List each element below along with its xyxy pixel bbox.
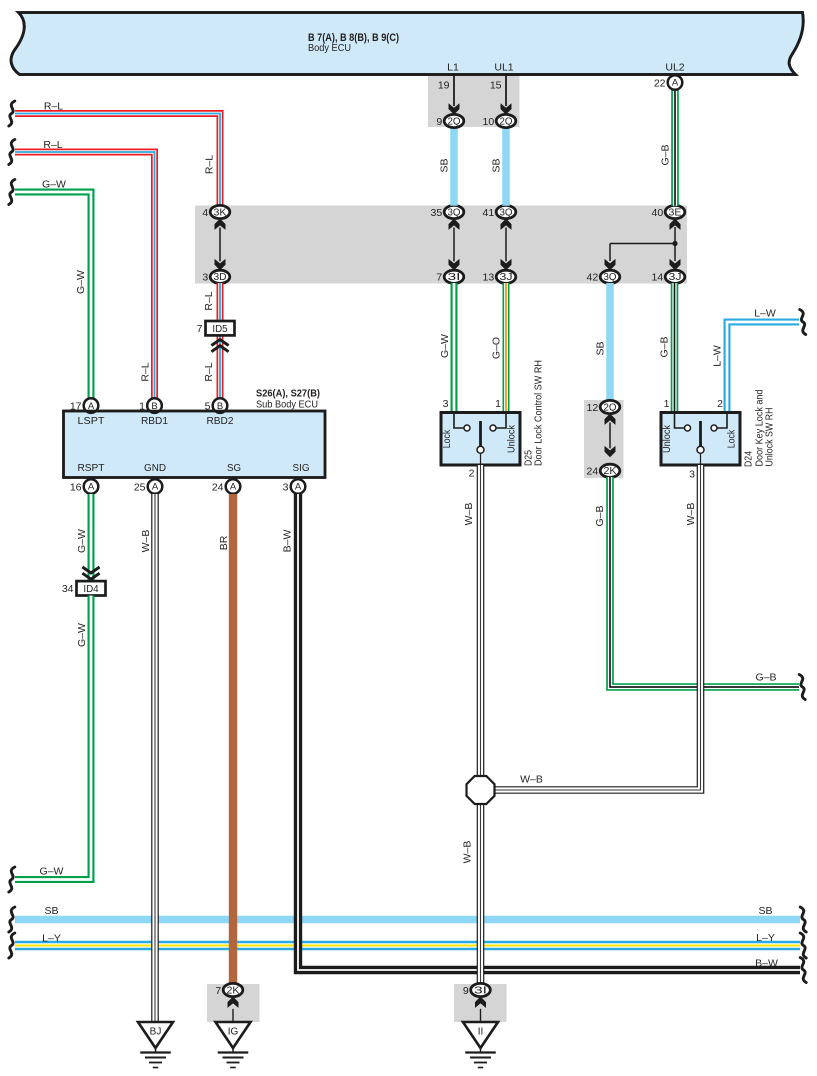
svg-text:R–L: R–L — [203, 362, 215, 381]
svg-text:40: 40 — [652, 207, 664, 219]
svg-text:W–B: W–B — [685, 503, 697, 526]
svg-text:G–B: G–B — [755, 672, 776, 684]
svg-text:SB: SB — [44, 905, 58, 917]
svg-text:ID5: ID5 — [212, 324, 228, 335]
connector 13 3J — [496, 270, 516, 283]
svg-text:L–W: L–W — [754, 308, 776, 320]
wire R-L from body harness to junction 3K — [15, 114, 220, 206]
svg-text:2K: 2K — [227, 985, 240, 996]
svg-text:3: 3 — [283, 481, 289, 493]
svg-text:2K: 2K — [604, 466, 617, 477]
junction block shade top (2Q connector group) — [428, 76, 520, 128]
wire G-B from Body ECU pin 22 A to 40 3E — [671, 90, 679, 206]
svg-text:G–O: G–O — [490, 337, 502, 359]
svg-text:2: 2 — [469, 468, 475, 480]
svg-text:3: 3 — [202, 272, 208, 284]
svg-text:3Q: 3Q — [448, 207, 461, 218]
svg-text:Lock: Lock — [725, 429, 737, 448]
svg-text:7: 7 — [197, 323, 203, 335]
svg-text:Unlock SW RH: Unlock SW RH — [763, 408, 775, 467]
svg-text:G–W: G–W — [76, 529, 88, 553]
pin 22 A of Body ECU — [668, 75, 683, 90]
switch lever D24 — [699, 421, 702, 446]
svg-text:A: A — [230, 482, 237, 493]
svg-text:16: 16 — [70, 481, 82, 493]
svg-text:G–W: G–W — [76, 623, 88, 647]
junction connector arrow 3K-3D — [219, 228, 221, 262]
component Sub Body ECU S26(A) S27(B) — [64, 411, 326, 478]
svg-text:G–W: G–W — [40, 866, 64, 878]
svg-text:25: 25 — [134, 481, 146, 493]
svg-text:BR: BR — [218, 535, 230, 550]
svg-text:SB: SB — [490, 158, 502, 172]
switch contact unlock D24 — [685, 425, 691, 431]
svg-text:35: 35 — [431, 207, 443, 219]
wire SB bus across bottom — [15, 916, 800, 924]
connector 9 2Q — [444, 114, 464, 127]
svg-text:R–L: R–L — [203, 291, 215, 310]
svg-text:41: 41 — [483, 207, 495, 219]
junction connector arrow 3Q-3J — [505, 228, 507, 262]
wire SB from 9 2Q to 35 3Q — [450, 128, 458, 206]
svg-text:L–Y: L–Y — [756, 932, 775, 944]
switch contact lock D24 — [711, 425, 717, 431]
connector 9 3I bottom — [475, 997, 486, 1008]
connector 35 3Q — [444, 205, 464, 218]
connector 7 3I — [444, 270, 464, 283]
svg-text:B–W: B–W — [281, 530, 293, 553]
wire G-B from 14 3J to D24 pin 1 — [671, 283, 679, 413]
wire L-W from cowl harness to D24 pin 2 — [727, 322, 799, 413]
svg-text:G–B: G–B — [659, 144, 671, 165]
svg-text:2Q: 2Q — [604, 402, 617, 413]
svg-text:LSPT: LSPT — [78, 415, 106, 427]
svg-text:RSPT: RSPT — [78, 462, 106, 474]
svg-text:SB: SB — [594, 341, 606, 355]
svg-text:G–W: G–W — [42, 179, 66, 191]
wire SB from 42 3Q to 12 2Q — [606, 283, 614, 401]
wire B-W from Sub Body ECU pin SIG to cowl harness — [298, 494, 800, 970]
pin 5 B RBD2 — [213, 398, 228, 413]
svg-text:3Q: 3Q — [604, 272, 617, 283]
wire BR from Sub Body ECU pin SG to connector 2K — [229, 494, 237, 985]
svg-text:1: 1 — [495, 398, 501, 410]
svg-text:RBD1: RBD1 — [141, 415, 168, 427]
svg-text:3J: 3J — [669, 272, 682, 283]
wire from pin L1 pin 19 to connector 2Q — [453, 75, 455, 107]
svg-text:4: 4 — [202, 207, 208, 219]
wire from pin UL1 pin 15 to connector 2Q — [505, 75, 507, 107]
joint connector 34 ID4 — [82, 573, 99, 579]
junction block shade bottom left (2K) — [207, 984, 260, 1022]
svg-text:7: 7 — [215, 985, 221, 997]
svg-text:3I: 3I — [448, 272, 461, 283]
svg-text:24: 24 — [212, 481, 224, 493]
connector 24 2K — [600, 464, 620, 477]
switch contact lock D25 — [464, 425, 470, 431]
svg-text:7: 7 — [436, 272, 442, 284]
svg-text:A: A — [672, 78, 679, 89]
svg-text:R–L: R–L — [139, 362, 151, 381]
wire R-L from joint ID5 to Sub Body ECU pin RBD2 — [217, 336, 224, 399]
svg-text:Door Lock Control SW RH: Door Lock Control SW RH — [532, 360, 544, 466]
svg-text:14: 14 — [652, 272, 664, 284]
svg-text:SB: SB — [758, 905, 772, 917]
svg-text:SIG: SIG — [293, 462, 310, 474]
svg-text:II: II — [478, 1027, 484, 1038]
switch contact unlock D25 — [490, 425, 496, 431]
svg-text:G–B: G–B — [594, 505, 606, 526]
junction block shade main band — [195, 206, 687, 284]
svg-text:L–W: L–W — [711, 345, 723, 367]
ground IG — [216, 1022, 251, 1048]
connector 41 3Q — [496, 205, 516, 218]
svg-text:1: 1 — [664, 398, 670, 410]
splice junction octagon — [467, 776, 495, 804]
connector 14 3J — [665, 270, 685, 283]
connector 10 2Q — [496, 114, 516, 127]
wire G-B from 24 2K to cowl harness — [610, 477, 799, 687]
svg-text:GND: GND — [144, 462, 166, 474]
svg-text:3Q: 3Q — [500, 207, 513, 218]
svg-text:42: 42 — [587, 272, 599, 284]
wire W-B from D25 pin 2 to connector 3I — [477, 465, 485, 985]
svg-text:Body ECU: Body ECU — [308, 42, 351, 54]
svg-text:2Q: 2Q — [500, 116, 513, 127]
connector 42 3Q — [600, 270, 620, 283]
connector 3 3D — [210, 270, 230, 283]
svg-text:W–B: W–B — [140, 530, 152, 553]
svg-text:RBD2: RBD2 — [207, 415, 234, 427]
svg-text:G–B: G–B — [658, 336, 670, 357]
svg-text:3E: 3E — [669, 207, 682, 218]
svg-text:9: 9 — [436, 116, 442, 128]
svg-text:3K: 3K — [214, 207, 227, 218]
svg-text:12: 12 — [587, 402, 599, 414]
junction connector arrow 3Q-3I left — [453, 228, 455, 262]
Body ECU band outline overdraw — [11, 13, 803, 75]
junction block shade bottom right (3I) — [454, 984, 507, 1022]
wire R-L from 3 3D to joint ID5 — [217, 283, 224, 321]
wire SB from 10 2Q to 41 3Q — [502, 128, 510, 206]
Sub Body ECU outline overdraw — [64, 411, 326, 478]
wire G-W from body harness to Sub Body ECU pin LSPT — [15, 192, 91, 399]
svg-text:UL2: UL2 — [665, 62, 684, 74]
svg-text:R–L: R–L — [203, 155, 215, 174]
junction node dot — [672, 241, 677, 246]
svg-text:R–L: R–L — [43, 139, 62, 151]
svg-text:A: A — [295, 482, 302, 493]
ground BJ — [138, 1022, 173, 1048]
svg-text:Sub Body ECU: Sub Body ECU — [256, 399, 318, 411]
wire R-L from body harness to Sub Body ECU pin RBD1 — [15, 152, 155, 399]
connector 12 2Q — [600, 400, 620, 413]
svg-text:3I: 3I — [474, 985, 487, 996]
wire G-W from 7 3I to D25 pin 3 — [451, 283, 458, 413]
svg-text:10: 10 — [483, 116, 495, 128]
svg-text:W–B: W–B — [520, 774, 543, 786]
svg-text:3: 3 — [443, 398, 449, 410]
svg-text:15: 15 — [490, 80, 502, 92]
wire G-O from 13 3J to D25 pin 1 — [503, 283, 510, 413]
svg-text:Unlock: Unlock — [661, 424, 673, 453]
pin 1 B RBD1 — [147, 398, 162, 413]
svg-text:3J: 3J — [500, 272, 513, 283]
junction connector arrow 2Q-2K — [609, 423, 611, 449]
wire G-W from joint ID4 to body harness — [15, 596, 91, 880]
connector 4 3K — [210, 205, 230, 218]
svg-text:Unlock: Unlock — [505, 424, 517, 453]
svg-text:G–W: G–W — [439, 334, 451, 358]
svg-text:2: 2 — [717, 398, 723, 410]
svg-text:A: A — [152, 482, 159, 493]
svg-text:13: 13 — [483, 272, 495, 284]
svg-text:22: 22 — [654, 77, 666, 89]
joint connector 7 ID5 — [211, 340, 228, 346]
svg-text:IG: IG — [228, 1027, 239, 1038]
pin 17 A LSPT — [84, 398, 99, 413]
svg-text:SG: SG — [227, 462, 241, 474]
junction block shade mid (2Q/2K group) — [584, 400, 624, 478]
svg-text:L–Y: L–Y — [42, 933, 61, 945]
svg-text:Lock: Lock — [441, 429, 453, 448]
svg-text:9: 9 — [463, 985, 469, 997]
svg-text:3: 3 — [689, 469, 695, 481]
svg-text:34: 34 — [62, 583, 74, 595]
ground II — [463, 1022, 498, 1048]
junction branch 3E to 3Q and 3J — [674, 227, 676, 244]
svg-text:W–B: W–B — [461, 841, 473, 864]
svg-text:2Q: 2Q — [448, 116, 461, 127]
svg-text:L1: L1 — [447, 62, 459, 74]
component D25 Door Lock Control SW RH — [441, 413, 520, 466]
svg-text:UL1: UL1 — [494, 62, 513, 74]
component D24 Door Key Lock and Unlock SW RH — [661, 413, 740, 466]
connector 40 3E — [665, 205, 685, 218]
svg-text:B–W: B–W — [755, 958, 778, 970]
svg-text:G–W: G–W — [75, 270, 87, 294]
svg-text:SB: SB — [438, 158, 450, 172]
svg-text:A: A — [88, 482, 95, 493]
wire L-Y bus across bottom — [15, 941, 800, 950]
component Body ECU B7(A) B8(B) B9(C) — [11, 13, 803, 75]
wire W-B from D24 pin 3 to splice — [492, 465, 701, 790]
svg-text:BJ: BJ — [150, 1027, 162, 1038]
wire G-W from Sub Body ECU pin RSPT to joint ID4 — [88, 494, 95, 581]
svg-text:ID4: ID4 — [83, 584, 99, 595]
connector 7 2K bottom — [228, 997, 239, 1008]
switch lever D25 — [479, 421, 482, 446]
svg-text:R–L: R–L — [44, 101, 63, 113]
svg-text:3D: 3D — [214, 272, 227, 283]
svg-text:19: 19 — [438, 80, 450, 92]
svg-text:24: 24 — [587, 466, 599, 478]
svg-text:W–B: W–B — [463, 503, 475, 526]
wire W-B from Sub Body ECU pin GND to ground BJ — [151, 494, 159, 1022]
